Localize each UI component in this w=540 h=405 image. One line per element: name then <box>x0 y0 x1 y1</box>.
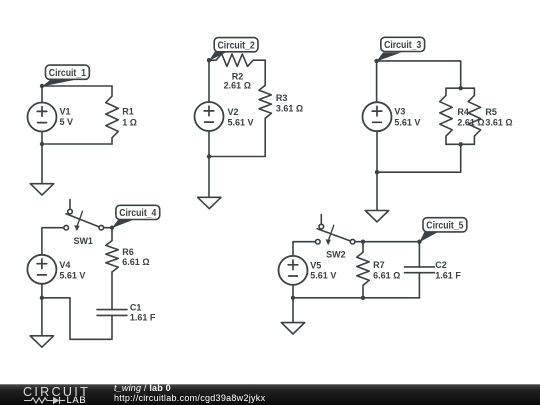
svg-text:R5: R5 <box>485 107 497 117</box>
svg-text:V1: V1 <box>60 107 71 117</box>
svg-text:5.61 V: 5.61 V <box>59 271 85 281</box>
svg-text:V4: V4 <box>59 260 70 270</box>
wire v5 bottom lead <box>292 285 294 298</box>
svg-text:3.61 Ω: 3.61 Ω <box>485 118 512 128</box>
node A c4 top <box>110 226 114 230</box>
node A c2 top <box>207 58 211 62</box>
label Circuit_3 <box>377 37 425 61</box>
svg-text:6.61 Ω: 6.61 Ω <box>122 257 149 267</box>
wire c2 bottom lead <box>418 273 420 298</box>
wire bottom rail c1 <box>42 143 112 145</box>
svg-text:5.61 V: 5.61 V <box>310 271 336 281</box>
svg-text:V2: V2 <box>228 107 239 117</box>
logo diode triangle <box>53 397 60 404</box>
svg-text:R7: R7 <box>373 260 385 270</box>
wire c1 bottom loop <box>42 298 112 340</box>
resistor R4 <box>440 88 452 144</box>
resistor R1 <box>106 86 118 144</box>
svg-text:V3: V3 <box>394 107 405 117</box>
svg-text:R4: R4 <box>457 107 469 117</box>
svg-text:http://circuitlab.com/cgd39a8w: http://circuitlab.com/cgd39a8w2jykx <box>114 393 266 403</box>
label Circuit_2 <box>209 38 258 61</box>
ground c3 <box>365 211 388 222</box>
svg-text:1.61 F: 1.61 F <box>435 270 461 280</box>
wire top rail c3 <box>377 61 461 88</box>
node B c2 bottom <box>207 154 211 158</box>
svg-text:R6: R6 <box>122 247 134 257</box>
svg-text:SW1: SW1 <box>73 236 93 246</box>
svg-text:LAB: LAB <box>67 395 87 405</box>
label Circuit_5 <box>419 218 466 243</box>
node D c5 v5 bottom <box>291 296 295 300</box>
wire v5 to switch <box>293 242 316 256</box>
svg-text:R3: R3 <box>276 93 288 103</box>
voltage source V2 <box>195 102 224 131</box>
node B c1 bottom <box>40 142 44 146</box>
wire bottom rail c5 <box>293 297 419 299</box>
svg-text:Circuit_3: Circuit_3 <box>384 40 422 51</box>
switch SW2 <box>316 215 355 246</box>
svg-text:6.61 Ω: 6.61 Ω <box>373 270 400 280</box>
capacitor C2 <box>404 267 434 273</box>
wire switch to node c4 <box>104 227 112 229</box>
node A c3 top <box>374 59 378 63</box>
wire top rail c2 <box>209 59 216 61</box>
resistor R5 <box>468 88 480 144</box>
wire top right c2 <box>253 60 265 85</box>
wire r6 to c1 <box>111 272 113 309</box>
svg-text:Circuit_2: Circuit_2 <box>218 40 256 51</box>
node B c3 rtop <box>459 86 463 90</box>
wire v4 to switch <box>42 228 64 255</box>
svg-text:1 Ω: 1 Ω <box>122 117 137 127</box>
node A c5 r7 top <box>361 240 365 244</box>
resistor R7 <box>357 242 369 298</box>
resistor R3 <box>259 85 271 118</box>
wire ground stem c4 <box>41 298 43 336</box>
logo resistor-diode symbol <box>24 397 65 404</box>
svg-text:t_wing / lab 0: t_wing / lab 0 <box>114 383 171 393</box>
node C c5 r7 bottom <box>361 296 365 300</box>
resistor R2 <box>216 54 253 66</box>
wire v1 bottom lead <box>41 132 43 145</box>
wire v3 bottom lead <box>376 131 378 172</box>
wire v2 top lead <box>208 60 210 102</box>
ground c4 <box>30 336 53 347</box>
svg-text:2.61 Ω: 2.61 Ω <box>224 81 251 91</box>
capacitor C1 <box>97 310 127 316</box>
voltage source V1 <box>28 103 57 132</box>
node D c3 bottom <box>375 170 379 174</box>
resistor R6 <box>106 228 118 272</box>
wire c2 top lead <box>418 242 420 267</box>
node A c1 top <box>40 84 44 88</box>
switch SW1 <box>64 200 104 232</box>
node B c5 c2 top <box>417 240 421 244</box>
svg-text:5 V: 5 V <box>60 117 74 127</box>
svg-text:2.61 Ω: 2.61 Ω <box>457 118 484 128</box>
svg-text:C1: C1 <box>130 303 142 313</box>
svg-text:5.61 V: 5.61 V <box>394 118 420 128</box>
svg-text:C2: C2 <box>435 260 447 270</box>
wire switch to c2 branch <box>355 241 420 243</box>
node B c4 bottom <box>40 296 44 300</box>
svg-text:R1: R1 <box>122 107 134 117</box>
wire right bottom lead c2 <box>209 118 265 156</box>
voltage source V4 <box>27 255 56 284</box>
svg-text:1.61 F: 1.61 F <box>130 313 156 323</box>
wire ground stem c1 <box>41 144 43 184</box>
wire v1 top lead <box>41 86 43 103</box>
wire v2 bottom lead <box>208 131 210 157</box>
wire top rail c1 <box>42 85 112 87</box>
footer bar <box>0 384 540 405</box>
ground c5 <box>281 323 304 334</box>
voltage source V5 <box>279 256 308 285</box>
svg-text:3.61 Ω: 3.61 Ω <box>276 103 303 113</box>
svg-text:Circuit_1: Circuit_1 <box>49 68 87 79</box>
wire ground stem c2 <box>208 157 210 198</box>
voltage source V3 <box>363 102 392 131</box>
wire ground stem c5 <box>292 298 294 323</box>
wire ground stem c3 <box>376 172 378 210</box>
node C c3 rbottom <box>459 142 463 146</box>
svg-text:5.61 V: 5.61 V <box>228 118 254 128</box>
svg-text:Circuit_5: Circuit_5 <box>426 221 464 232</box>
label Circuit_1 <box>42 65 89 86</box>
svg-text:SW2: SW2 <box>326 250 346 260</box>
label Circuit_4 <box>112 205 160 228</box>
wire r-network top bar <box>446 87 474 89</box>
wire v3 top lead <box>376 61 378 102</box>
wire right bottom lead c3 <box>377 144 461 172</box>
wire v4 bottom lead <box>41 284 43 298</box>
svg-text:Circuit_4: Circuit_4 <box>119 208 157 219</box>
wire r-network bottom bar <box>446 143 474 145</box>
ground c1 <box>30 184 53 195</box>
ground c2 <box>198 197 221 208</box>
svg-text:V5: V5 <box>310 261 321 271</box>
